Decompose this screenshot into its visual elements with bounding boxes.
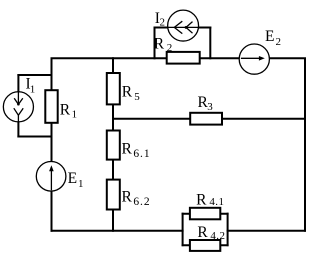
current source I1: [3, 91, 33, 122]
label E1: [68, 170, 84, 190]
resistor R2: [167, 52, 200, 64]
label I1: [26, 76, 36, 96]
svg-text:E: E: [265, 28, 274, 45]
resistor R5: [107, 73, 120, 104]
wire: I2 bypass left vertical: [154, 27, 156, 60]
wire: R4.2 horizontal stubs: [182, 244, 229, 246]
svg-text:4.2: 4.2: [210, 230, 225, 242]
resistor R4.1: [190, 208, 220, 220]
wire: I1 branch top horizontal: [17, 74, 52, 76]
svg-text:2: 2: [160, 16, 166, 28]
svg-text:2: 2: [167, 42, 173, 54]
svg-text:R: R: [122, 188, 133, 205]
svg-text:4.1: 4.1: [209, 196, 224, 208]
wire: bottom right segment: [227, 230, 306, 232]
svg-text:E: E: [68, 170, 77, 187]
label R4.1: [196, 191, 224, 208]
voltage source E2: [239, 44, 269, 74]
label R5: [122, 84, 141, 103]
resistor R1: [45, 90, 57, 123]
wire: I2 bypass horizontal: [154, 27, 212, 29]
wire: middle vertical branch: [112, 57, 114, 232]
svg-text:R: R: [196, 191, 207, 208]
svg-text:R: R: [122, 141, 133, 158]
wire: R4.1 horizontal stubs: [182, 213, 229, 215]
label I2: [155, 10, 165, 29]
svg-text:1: 1: [30, 83, 36, 95]
svg-text:6.1: 6.1: [133, 148, 150, 160]
wire: bottom left segment: [51, 230, 184, 232]
wire: R4 parallel left vertical: [182, 213, 184, 247]
label R2: [154, 35, 172, 54]
label E2: [265, 28, 281, 48]
label R6.1: [122, 141, 151, 160]
wire: I1 branch bottom horizontal: [17, 136, 52, 138]
svg-text:R: R: [122, 84, 133, 101]
resistor R6.2: [107, 180, 120, 210]
voltage source E1: [36, 162, 66, 192]
svg-text:3: 3: [207, 101, 213, 113]
svg-text:2: 2: [276, 36, 282, 48]
svg-text:1: 1: [72, 109, 78, 121]
label R4.2: [197, 224, 225, 242]
wire: I2 bypass right vertical: [209, 27, 211, 60]
wire: R3 horizontal branch: [112, 118, 306, 120]
label R1: [60, 102, 77, 121]
current source I2: [167, 10, 199, 41]
svg-text:R: R: [197, 224, 208, 241]
svg-text:R: R: [60, 102, 71, 119]
resistor R3: [190, 113, 222, 125]
label R3: [198, 94, 214, 113]
svg-text:1: 1: [78, 178, 84, 190]
svg-text:6.2: 6.2: [133, 196, 150, 208]
wire: outer loop (left vertical, top wire, right vertical): [52, 58, 306, 232]
svg-text:5: 5: [134, 91, 140, 103]
wire: R4 parallel right vertical: [227, 213, 229, 247]
resistor R4.2: [190, 240, 220, 251]
resistor R6.1: [107, 131, 120, 160]
svg-text:R: R: [154, 35, 165, 52]
wire: I1 branch vertical: [17, 74, 19, 138]
label R6.2: [122, 188, 151, 208]
